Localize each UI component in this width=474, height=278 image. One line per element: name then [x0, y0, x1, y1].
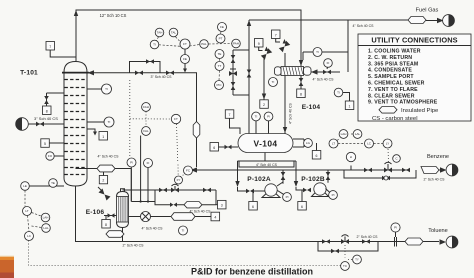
wire PSV riser 1 [263, 58, 266, 100]
wire steam line to E-106 [129, 216, 212, 218]
svg-text:FY: FY [177, 178, 181, 182]
svg-text:7: 7 [229, 113, 231, 117]
svg-text:4" Sch 40 CS: 4" Sch 40 CS [190, 210, 212, 214]
instrument PI left [127, 158, 136, 202]
valve toluene block 1 [322, 239, 330, 244]
instrument FE [218, 23, 227, 32]
valve pump A discharge [281, 172, 286, 180]
instrument LT [23, 190, 32, 215]
svg-text:FT: FT [183, 42, 187, 46]
instrument LAL benzene [350, 130, 362, 139]
svg-text:Benzene: Benzene [427, 154, 449, 160]
svg-text:TI: TI [272, 80, 275, 84]
instrument FAH steam [142, 103, 151, 112]
wire vertical to reboiler manifold [131, 136, 155, 202]
svg-text:9: 9 [258, 42, 260, 46]
svg-text:UTILITY CONNECTIONS: UTILITY CONNECTIONS [371, 36, 457, 45]
arrow toluene out [440, 239, 447, 244]
node box 6 drum drain [210, 143, 238, 152]
svg-text:3" Sch 40 CS: 3" Sch 40 CS [34, 116, 58, 121]
instrument LAH benzene [337, 130, 348, 141]
wire benzene bypass [344, 170, 416, 178]
arrow fuel riser up [247, 20, 251, 26]
node box drain drum [312, 143, 321, 159]
svg-text:9. VENT TO ATMOSPHERE: 9. VENT TO ATMOSPHERE [368, 100, 438, 106]
valve manifold upper pair [231, 55, 236, 63]
svg-text:6: 6 [252, 205, 254, 209]
instrument FC steam [178, 165, 193, 177]
instrument FE [181, 49, 190, 73]
wire reflux upper branch [130, 62, 161, 73]
valve reflux block 1 [135, 71, 143, 76]
node utility box left [43, 106, 52, 115]
svg-text:2: 2 [102, 179, 104, 183]
instrument FT [180, 39, 190, 49]
wire steam bypass [155, 190, 216, 205]
instrument TI bottoms [179, 226, 188, 235]
node box 4 condensate [211, 212, 220, 221]
valve upper branch [146, 59, 154, 64]
instrument PT [216, 32, 225, 44]
instrument FT steam [171, 114, 180, 123]
node feed flange [16, 118, 29, 131]
node box 8 drain [297, 89, 306, 98]
svg-text:TI: TI [108, 120, 111, 124]
wire fuel gas riser [248, 20, 250, 134]
svg-text:LE: LE [23, 184, 27, 188]
instrument LV benzene [374, 139, 393, 148]
svg-text:2: 2 [263, 103, 265, 107]
svg-text:LY: LY [386, 142, 389, 146]
valve steam bypass [170, 203, 177, 207]
svg-text:4" Sch 40 CS: 4" Sch 40 CS [142, 227, 164, 231]
svg-text:PI: PI [130, 161, 133, 165]
svg-text:PAL: PAL [201, 42, 207, 46]
node hexagon insulated bottoms [106, 231, 124, 238]
svg-text:6. CHEMICAL SEWER: 6. CHEMICAL SEWER [368, 81, 425, 87]
svg-text:Fuel Gas: Fuel Gas [416, 8, 439, 14]
valve PCV control [229, 69, 237, 76]
wire CW return E-104 [303, 20, 348, 72]
svg-text:FE: FE [183, 57, 187, 61]
instrument TAH [169, 28, 179, 41]
instrument LT drum [329, 139, 338, 148]
wire column bottoms line [76, 186, 440, 242]
svg-text:LAH: LAH [341, 132, 347, 136]
wire CW inlet E-104 [311, 71, 340, 73]
node hexagon insulated fuel [408, 17, 426, 24]
svg-text:LAH: LAH [43, 216, 49, 220]
wire toluene valve station [318, 242, 378, 252]
svg-text:TI: TI [316, 50, 319, 54]
pump P-102B [296, 183, 329, 197]
svg-text:PI: PI [332, 193, 335, 197]
svg-text:FE: FE [220, 25, 224, 29]
wire box7 to riser [50, 50, 76, 57]
instrument PI pump A [277, 182, 291, 201]
legend utility connections box [358, 34, 471, 122]
wire steam station line [123, 190, 217, 205]
svg-text:4. CONDENSATE: 4. CONDENSATE [368, 68, 412, 74]
svg-text:LAL: LAL [43, 226, 49, 230]
wire dotted steam signal [177, 124, 178, 163]
instrument LE [21, 182, 64, 191]
svg-text:5. SAMPLE PORT: 5. SAMPLE PORT [368, 74, 414, 80]
valve toluene block 2 [362, 239, 370, 244]
node utility box 5 [41, 139, 50, 148]
instrument TI drum [252, 112, 261, 134]
wire dotted signal drop [129, 80, 131, 158]
valve fuel riser block [247, 70, 252, 78]
valve benzene bypass [382, 176, 390, 181]
svg-text:TI: TI [105, 87, 108, 91]
node box 9 [255, 39, 264, 51]
valve drain pair [299, 78, 304, 86]
svg-text:CS - carbon steel: CS - carbon steel [372, 116, 418, 122]
instrument TI e104 [269, 78, 278, 87]
svg-text:FO: FO [48, 154, 53, 158]
instrument PCV [215, 71, 224, 90]
node hexagon insulated toluene [405, 238, 423, 245]
instrument FI cw [324, 59, 333, 69]
node box drain pump B [298, 190, 307, 210]
instrument Fo [46, 152, 64, 160]
node box 7 psv [272, 30, 281, 42]
valve feed [36, 122, 44, 127]
relief valve PSV2 [279, 41, 290, 52]
wire pump B discharge [327, 170, 329, 183]
instrument LAL [32, 224, 51, 233]
column T-101 [62, 62, 89, 187]
valve steam block 2 [203, 188, 211, 193]
svg-text:4" Sch 40 CS: 4" Sch 40 CS [289, 102, 293, 124]
node mixer circle-x [141, 212, 151, 222]
svg-text:8: 8 [300, 92, 302, 96]
wire E-106 drain west [104, 216, 117, 220]
svg-text:TAH: TAH [157, 31, 163, 35]
instrument LI benzene [346, 152, 355, 170]
wire dashed instrument row [159, 44, 232, 47]
instrument FY steam [175, 176, 183, 184]
svg-text:2" Sch 40 CS: 2" Sch 40 CS [424, 178, 446, 182]
svg-text:E-106: E-106 [86, 209, 105, 216]
reboiler E-106 [117, 189, 129, 228]
valve toluene bypass [331, 249, 339, 254]
node hexagon insulated steam supply [184, 202, 202, 208]
svg-text:TI: TI [153, 43, 156, 47]
svg-text:4" Sch 40 CS: 4" Sch 40 CS [256, 163, 278, 167]
node flange fuel gas [443, 15, 455, 27]
svg-text:TE: TE [218, 52, 222, 56]
instrument LV toluene [341, 262, 350, 271]
svg-text:TI: TI [255, 115, 258, 119]
svg-text:FI: FI [327, 61, 330, 65]
valve benzene block 2 [402, 168, 410, 173]
arrow vapor into E-104 [299, 60, 303, 66]
instrument LAH [32, 213, 50, 222]
svg-text:5: 5 [44, 142, 46, 146]
svg-text:6: 6 [316, 154, 318, 158]
instrument FAL steam [142, 112, 151, 136]
node box 1 cw supply [343, 93, 354, 110]
svg-text:PI: PI [394, 226, 397, 230]
svg-text:1. COOLING WATER: 1. COOLING WATER [368, 49, 421, 55]
instrument PI pump B [326, 189, 338, 200]
decorative orange corner block [0, 256, 14, 278]
wire V-104 bottoms header [238, 153, 297, 184]
node hexagon insulated bottoms left [97, 165, 115, 172]
wire bottoms to hexagon [76, 168, 132, 170]
arrow benzene out [440, 167, 447, 172]
svg-text:Toluene: Toluene [428, 228, 448, 234]
svg-text:12" Sch 10 CS: 12" Sch 10 CS [100, 13, 127, 18]
instrument TA [155, 28, 164, 40]
arrow fuel out [437, 18, 444, 23]
svg-text:LT: LT [25, 209, 28, 213]
svg-text:LG: LG [306, 141, 311, 145]
instrument FI left [144, 159, 153, 202]
svg-text:8: 8 [46, 109, 48, 113]
arrow pump B suction [294, 181, 298, 187]
relief valve E-106 [98, 187, 111, 201]
node hexagon insulated steam [171, 213, 195, 221]
valve benzene block 1 [364, 168, 372, 173]
arrow overhead up [74, 10, 78, 16]
node box sample right of column [87, 129, 108, 140]
svg-text:TI: TI [337, 91, 340, 95]
wire E-106 bottoms connections [122, 228, 124, 242]
svg-text:6: 6 [301, 205, 303, 209]
control valve steam [171, 184, 179, 192]
svg-text:LT: LT [332, 142, 335, 146]
svg-text:PIC: PIC [216, 83, 222, 87]
valve CW [323, 70, 331, 75]
instrument TC [49, 179, 58, 188]
svg-text:4" Sch 40 CS: 4" Sch 40 CS [313, 78, 335, 82]
svg-text:2" Sch 40 CS: 2" Sch 40 CS [357, 235, 379, 239]
svg-text:TT: TT [218, 64, 222, 68]
arrow reflux corner bottom [191, 167, 198, 172]
svg-text:P-102A: P-102A [247, 176, 271, 183]
wire pump A discharge [282, 170, 284, 184]
svg-text:TY: TY [355, 258, 359, 262]
wire benzene header [197, 169, 441, 171]
instrument LG drum [293, 139, 312, 148]
wire reflux return line [89, 73, 197, 167]
svg-text:P-102B: P-102B [301, 176, 325, 183]
arrow PSV1 vent [265, 47, 269, 52]
node hexagon insulated benzene [421, 167, 439, 174]
instrument LC [25, 216, 34, 241]
instrument TI utility [334, 88, 345, 97]
svg-text:PI: PI [267, 115, 270, 119]
arrow condensate into drum [283, 127, 287, 133]
svg-text:3: 3 [221, 204, 223, 208]
svg-text:4" Sch 40 CS: 4" Sch 40 CS [353, 24, 375, 28]
node orifice toluene [395, 237, 397, 247]
node flange toluene [446, 236, 458, 248]
instrument TI upper right of column [87, 84, 112, 94]
pump P-102A [238, 184, 281, 198]
valve steam block 1 [159, 188, 167, 193]
arrow PSV2 vent [283, 39, 287, 44]
heat exchanger E-104 [275, 67, 312, 76]
svg-text:FAH: FAH [143, 105, 149, 109]
wire fuel gas line [249, 19, 438, 22]
valve reflux block 2 [166, 71, 174, 76]
wire E-104 drain [300, 76, 302, 90]
node box 7 left of drum [225, 110, 240, 134]
node box 2 reboiler [99, 172, 107, 184]
valve on stub [44, 96, 49, 104]
node box drain pump A [249, 191, 257, 210]
instrument TY toluene [345, 245, 361, 264]
node utility box 7 top-left [46, 42, 55, 51]
svg-text:3. 365 PSIA STEAM: 3. 365 PSIA STEAM [368, 61, 418, 67]
valve manifold lower pair [231, 82, 236, 90]
svg-text:7. VENT TO FLARE: 7. VENT TO FLARE [368, 87, 418, 93]
svg-text:6: 6 [213, 146, 215, 150]
node hexagon insulated riser [193, 122, 200, 139]
svg-text:FI: FI [147, 161, 150, 165]
instrument PI toluene [391, 223, 400, 237]
instrument TI left of FT [150, 40, 159, 49]
wire PSV2 stem [284, 53, 286, 67]
label 4" Sch 40 CS suction [239, 161, 294, 167]
svg-text:FAL: FAL [143, 129, 149, 133]
svg-text:FT: FT [174, 117, 178, 121]
svg-text:LAL: LAL [355, 132, 361, 136]
svg-text:1: 1 [349, 104, 351, 108]
svg-text:PT: PT [219, 37, 223, 41]
svg-text:PAH: PAH [233, 42, 239, 46]
wire column side stub upper [47, 93, 65, 106]
wire stub to box5 [49, 142, 64, 144]
wire PCV manifold loop [233, 50, 249, 95]
instrument LC benzene [338, 139, 374, 148]
instrument PI drum [264, 112, 273, 134]
wire dotted LC to bottom signal run [29, 241, 341, 266]
node flange benzene [446, 164, 458, 176]
svg-text:2. C. W. RETURN: 2. C. W. RETURN [368, 55, 412, 61]
svg-text:8. CLEAR SEWER: 8. CLEAR SEWER [368, 93, 415, 99]
valve E-106 west [108, 213, 115, 217]
svg-text:Insulated Pipe: Insulated Pipe [401, 108, 439, 114]
control valve benzene LV [384, 148, 400, 173]
wire dashed to FT steam [130, 118, 172, 120]
svg-text:4" Sch 40 CS: 4" Sch 40 CS [98, 155, 120, 159]
svg-text:2" Sch 40 CS: 2" Sch 40 CS [123, 244, 145, 248]
svg-text:TAL: TAL [171, 31, 177, 35]
svg-text:PI: PI [286, 195, 289, 199]
relief valve PSV1 [261, 48, 272, 59]
svg-text:1: 1 [102, 135, 104, 139]
control valve toluene [341, 235, 349, 244]
node box 2 with arrow [260, 90, 269, 108]
svg-text:V-104: V-104 [254, 139, 278, 149]
svg-text:LI: LI [350, 155, 353, 159]
svg-text:E-104: E-104 [302, 104, 321, 111]
instrument TI cw return [313, 48, 322, 57]
node box 3 steam [216, 200, 226, 209]
svg-text:8: 8 [105, 223, 107, 227]
vessel V-104 [238, 134, 293, 153]
instrument TI lower right of column [87, 117, 114, 127]
instrument FAL [200, 40, 209, 49]
arrow CW into shell [311, 69, 318, 74]
node box 8 e106 [102, 220, 111, 229]
svg-text:TE: TE [51, 181, 55, 185]
wire overhead vapor line [76, 10, 301, 66]
wire feed line [28, 123, 64, 125]
wire condensate from E-104 [284, 75, 286, 134]
svg-text:7: 7 [49, 45, 51, 49]
arrow pump A suction [235, 181, 239, 187]
svg-text:P&ID for benzene distillation: P&ID for benzene distillation [191, 267, 313, 277]
svg-text:7: 7 [275, 33, 277, 37]
svg-text:3" Sch 40 CS: 3" Sch 40 CS [151, 75, 173, 79]
arrow reflux into column [88, 70, 95, 75]
svg-text:TI: TI [182, 229, 185, 233]
valve pump B discharge [326, 172, 331, 180]
instrument TE mid [215, 50, 224, 59]
instrument FAH [232, 39, 241, 48]
svg-text:4: 4 [214, 216, 216, 220]
node junction dots [140, 200, 142, 202]
svg-text:T-101: T-101 [20, 70, 38, 77]
instrument TT mid [215, 59, 224, 71]
